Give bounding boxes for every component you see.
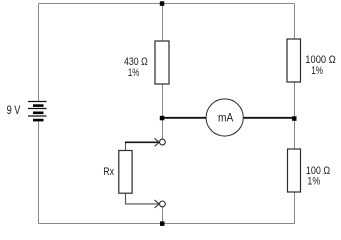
wire left lower [38, 121, 40, 224]
junction node mid left [160, 116, 165, 121]
svg-text:1%: 1% [311, 65, 323, 77]
wire branch 430 top [162, 4, 164, 42]
wire meter left [162, 117, 206, 119]
wire branch 430 bottom [162, 84, 164, 119]
wire meter right [243, 117, 294, 119]
wire Rx bottom lead [126, 193, 159, 204]
wire right lower [294, 192, 296, 224]
wire left [38, 4, 40, 102]
resistor Rx [119, 151, 132, 194]
svg-text:1%: 1% [128, 67, 140, 79]
svg-text:9 V: 9 V [7, 105, 21, 117]
arrow into top terminal [155, 138, 160, 146]
junction node top [160, 1, 165, 6]
svg-text:mA: mA [218, 113, 233, 125]
svg-text:Rx: Rx [103, 166, 114, 178]
wire junction to top terminal [162, 118, 164, 139]
resistor 430 ohm [155, 41, 169, 84]
battery 9V [28, 102, 47, 121]
wire bottom terminal to bottom junction [162, 207, 164, 224]
junction node mid right [292, 116, 297, 121]
resistor 1000 ohm [287, 39, 301, 82]
junction node bottom [160, 221, 165, 226]
wire right middle [294, 82, 296, 150]
arrow into bottom terminal [155, 200, 160, 208]
terminal top node [160, 139, 166, 145]
wire top [39, 3, 295, 5]
wire right upper [294, 4, 296, 40]
svg-text:1%: 1% [307, 175, 320, 187]
terminal bottom node [160, 201, 166, 207]
ammeter mA [206, 99, 243, 136]
resistor 100 ohm [288, 149, 301, 192]
svg-text:430 Ω: 430 Ω [124, 56, 148, 68]
wire Rx top lead [125, 143, 127, 151]
wire bottom [39, 223, 295, 225]
